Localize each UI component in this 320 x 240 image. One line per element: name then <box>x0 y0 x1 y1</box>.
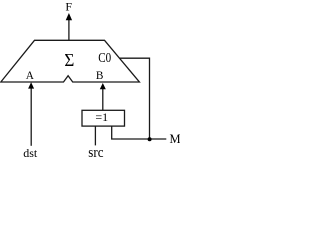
junction dot <box>148 137 152 141</box>
svg-text:M: M <box>170 132 181 146</box>
wire F output stem <box>68 20 70 41</box>
wire C0 stub <box>119 58 149 139</box>
ALU U1 (trapezoid body with notch) <box>1 40 140 82</box>
arrowhead B <box>100 83 106 89</box>
wire xor output to B <box>102 88 104 111</box>
svg-text:F: F <box>65 0 72 14</box>
arrowhead A <box>28 82 34 88</box>
xor gate U2 (=1 box) <box>82 110 125 126</box>
svg-text:src: src <box>88 144 103 160</box>
svg-text:=1: =1 <box>95 110 108 124</box>
wire M horizontal <box>112 126 167 139</box>
svg-text:Σ: Σ <box>64 49 74 70</box>
svg-text:A: A <box>26 70 35 82</box>
wire src input <box>94 126 96 145</box>
svg-text:dst: dst <box>23 146 38 160</box>
wire dst to A <box>30 88 32 146</box>
svg-text:B: B <box>96 70 104 82</box>
svg-text:C0: C0 <box>98 50 111 65</box>
arrowhead F <box>66 13 72 20</box>
